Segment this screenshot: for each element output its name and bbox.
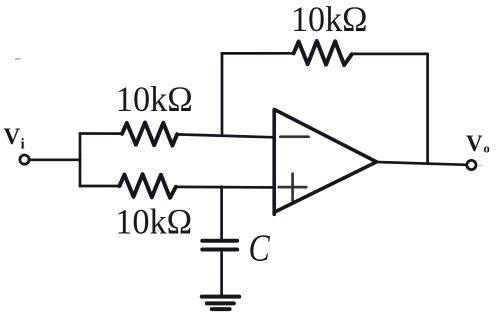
capacitor C bottom plate xyxy=(202,248,237,252)
svg-text:10kΩ: 10kΩ xyxy=(116,79,193,119)
wire input from Vi terminal to split node xyxy=(29,158,80,161)
op-amp U1 triangle xyxy=(274,109,376,212)
wire feedback vertical left from inverting node xyxy=(221,54,224,136)
svg-text:C: C xyxy=(249,227,271,269)
op-amp U1 minus sign (inverting input) xyxy=(280,135,308,138)
svg-text:o: o xyxy=(484,142,490,156)
wire feedback top left xyxy=(222,52,294,55)
node Vo terminal xyxy=(467,160,476,169)
resistor R2 10k feedback xyxy=(294,41,352,65)
wire left vertical split xyxy=(79,134,82,187)
svg-text:V: V xyxy=(4,124,21,149)
node Vi terminal xyxy=(20,155,29,164)
wire feedback vertical right down to output xyxy=(426,54,429,163)
wire bottom branch right to op-amp non-inverting input xyxy=(176,186,274,189)
svg-text:V: V xyxy=(466,131,483,156)
svg-text:i: i xyxy=(21,137,25,153)
svg-text:10kΩ: 10kΩ xyxy=(115,202,192,242)
resistor R1 10k top branch xyxy=(122,123,177,146)
svg-text:10kΩ: 10kΩ xyxy=(291,0,368,39)
wire bottom branch left xyxy=(80,185,120,188)
capacitor C top plate xyxy=(202,239,237,243)
wire output from op-amp apex to Vo terminal xyxy=(377,162,467,165)
artifact speck right of Vo terminal xyxy=(479,165,483,167)
resistor R3 10k bottom branch xyxy=(120,174,176,198)
wire capacitor tap vertical xyxy=(220,187,223,239)
wire top branch right to op-amp inverting input xyxy=(177,134,274,137)
wire capacitor to ground xyxy=(220,251,223,295)
artifact speck top-left xyxy=(15,58,21,60)
wire feedback top right xyxy=(352,53,428,56)
ground symbol xyxy=(202,295,239,299)
wire top branch left xyxy=(80,132,122,135)
op-amp U1 plus sign (non-inverting input) xyxy=(279,174,307,201)
